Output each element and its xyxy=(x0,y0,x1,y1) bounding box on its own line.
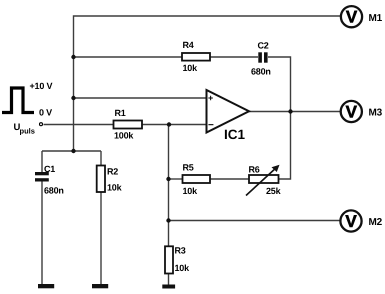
svg-text:R4: R4 xyxy=(183,40,194,50)
svg-text:M3: M3 xyxy=(369,108,383,119)
svg-text:R6: R6 xyxy=(249,165,260,175)
svg-text:680n: 680n xyxy=(251,67,271,77)
svg-text:R3: R3 xyxy=(175,246,186,256)
svg-text:680n: 680n xyxy=(44,186,64,196)
svg-text:10k: 10k xyxy=(183,63,199,73)
svg-text:C2: C2 xyxy=(258,41,269,51)
svg-text:IC1: IC1 xyxy=(224,127,246,142)
svg-text:100k: 100k xyxy=(114,131,134,141)
svg-text:C1: C1 xyxy=(44,164,55,174)
svg-text:R2: R2 xyxy=(107,167,118,177)
svg-text:25k: 25k xyxy=(266,186,282,196)
svg-text:−: − xyxy=(208,120,214,131)
svg-text:+: + xyxy=(208,93,213,103)
svg-text:10k: 10k xyxy=(183,186,199,196)
svg-text:10k: 10k xyxy=(175,263,191,273)
svg-text:R5: R5 xyxy=(183,163,194,173)
svg-text:R1: R1 xyxy=(115,108,126,118)
svg-text:V: V xyxy=(346,103,358,122)
svg-text:puls: puls xyxy=(20,127,35,136)
svg-text:0 V: 0 V xyxy=(39,108,52,118)
svg-text:+10 V: +10 V xyxy=(30,81,53,91)
svg-text:V: V xyxy=(345,212,357,231)
svg-text:10k: 10k xyxy=(107,183,123,193)
svg-text:V: V xyxy=(346,8,358,27)
svg-text:M2: M2 xyxy=(369,217,383,228)
svg-text:M1: M1 xyxy=(369,13,383,24)
